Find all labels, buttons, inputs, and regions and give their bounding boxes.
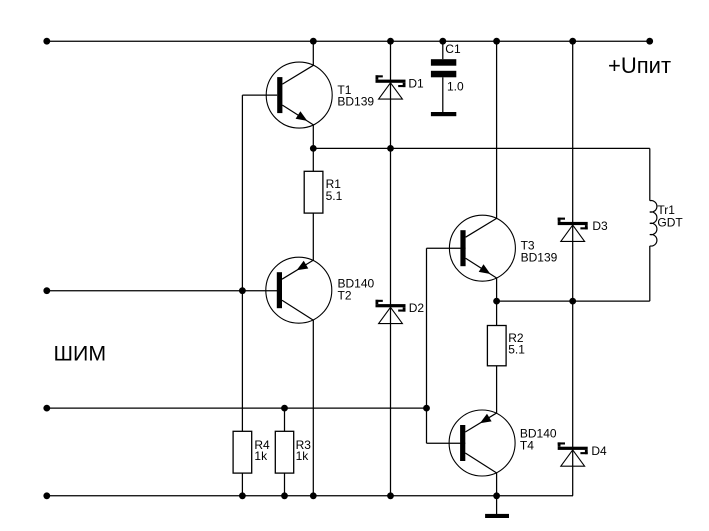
transistor T3 BD139 (NPN) [449, 215, 515, 281]
resistor R4 [233, 431, 252, 473]
wire top supply rail [47, 40, 650, 42]
wire T3 base vertical down to T4 base [426, 248, 428, 443]
junction bottom rail / T4 collector [493, 492, 500, 499]
junction top rail / T3 collector [493, 38, 500, 45]
wire T1 emitter to second rail [312, 125, 314, 148]
svg-text:ШИМ: ШИМ [54, 342, 107, 366]
svg-text:BD139: BD139 [521, 251, 558, 265]
junction output rail / T3 emitter [493, 298, 500, 305]
svg-text:C1: C1 [445, 42, 461, 56]
junction top rail / D3 [569, 38, 576, 45]
wire third rail to R3 top [284, 408, 286, 431]
svg-text:D3: D3 [592, 219, 608, 233]
wire R1 bottom to T2 emitter [312, 213, 314, 260]
junction T2 base rail / T1 base branch [239, 287, 246, 294]
wire D1 D2 branch vertical [390, 41, 392, 496]
zener diode D4 [558, 442, 588, 466]
wire R4 bottom to ground rail [241, 473, 243, 496]
wire D3 D4 branch vertical [572, 41, 574, 496]
ground symbol below T4 [485, 514, 509, 518]
svg-text:1k: 1k [296, 449, 310, 463]
wire T3 base lead horizontal [427, 247, 466, 249]
ground bar below C1 [431, 112, 456, 116]
wire second rail (T1 emitter to Tr1) [313, 147, 650, 149]
junction top rail / C1 [439, 38, 446, 45]
node terminal +U top left [43, 38, 50, 45]
svg-text:1k: 1k [254, 449, 268, 463]
wire bottom rail [47, 495, 573, 497]
node terminal +Uпит [646, 38, 653, 45]
junction second rail / T1 emitter R1 [310, 145, 317, 152]
svg-text:D2: D2 [409, 301, 425, 315]
svg-text:T2: T2 [338, 289, 352, 303]
zener diode D3 [558, 218, 588, 242]
wire T1 base vertical down to R4 [241, 95, 243, 431]
junction bottom rail / D2 [387, 492, 394, 499]
svg-text:T4: T4 [520, 439, 534, 453]
svg-text:D1: D1 [408, 77, 424, 91]
resistor R3 [275, 431, 293, 473]
wire R3 bottom to ground rail [284, 473, 286, 496]
wire output rail (T3 emitter to Tr1) [497, 300, 650, 302]
resistor R2 [487, 326, 506, 366]
wire C1 to ground bar [442, 77, 444, 112]
wire ground stub below T4 [496, 496, 498, 514]
node terminal ground left [43, 492, 50, 499]
wire top rail to T3 collector [496, 41, 498, 218]
junction output rail / D3 D4 [569, 298, 576, 305]
junction top rail / D1 [387, 38, 394, 45]
svg-text:D4: D4 [591, 444, 607, 458]
transistor T4 BD140 (PNP) [449, 410, 515, 476]
junction top rail / T1 collector [310, 38, 317, 45]
junction bottom rail / R4 [239, 492, 246, 499]
wire T1 base lead horizontal [242, 94, 277, 96]
svg-text:+Uпит: +Uпит [608, 53, 671, 78]
transistor T1 BD139 (NPN) [266, 62, 332, 128]
wire T3 emitter to R2 top [496, 278, 498, 326]
zener diode D1 [376, 75, 406, 99]
wire T4 base lead horizontal [427, 442, 466, 444]
svg-text:GDT: GDT [657, 215, 683, 229]
wire PWM input rail to T2 base [47, 290, 282, 292]
capacitor C1 [431, 59, 456, 77]
junction third rail / T3 T4 base branch [423, 405, 430, 412]
junction bottom rail / R3 [281, 492, 288, 499]
resistor R1 [304, 171, 323, 213]
svg-text:BD139: BD139 [337, 95, 374, 109]
wire top rail to C1 [442, 41, 444, 59]
junction bottom rail / T2 collector [310, 492, 317, 499]
wire T4 collector to bottom rail [496, 473, 498, 496]
svg-text:5.1: 5.1 [508, 342, 525, 356]
node terminal PWM input 1 [43, 287, 50, 294]
node terminal PWM input 2 [43, 405, 50, 412]
wire R2 bottom to T4 emitter [496, 366, 498, 413]
junction second rail / D1 [387, 145, 394, 152]
wire second rail to R1 top [312, 148, 314, 171]
wire top rail to T1 collector [312, 41, 314, 65]
zener diode D2 [376, 300, 406, 324]
wire T2 collector to bottom rail [312, 320, 314, 496]
wire second rail corner down to Tr1 top [649, 148, 651, 200]
wire third rail (input to T3/T4 base divider) [47, 407, 427, 409]
svg-text:1.0: 1.0 [447, 79, 464, 93]
junction third rail / R3 [281, 405, 288, 412]
inductor Tr1 GDT winding [650, 201, 657, 246]
svg-text:5.1: 5.1 [326, 189, 343, 203]
wire Tr1 bottom to output rail [649, 246, 651, 301]
transistor T2 BD140 (PNP) [266, 257, 332, 323]
